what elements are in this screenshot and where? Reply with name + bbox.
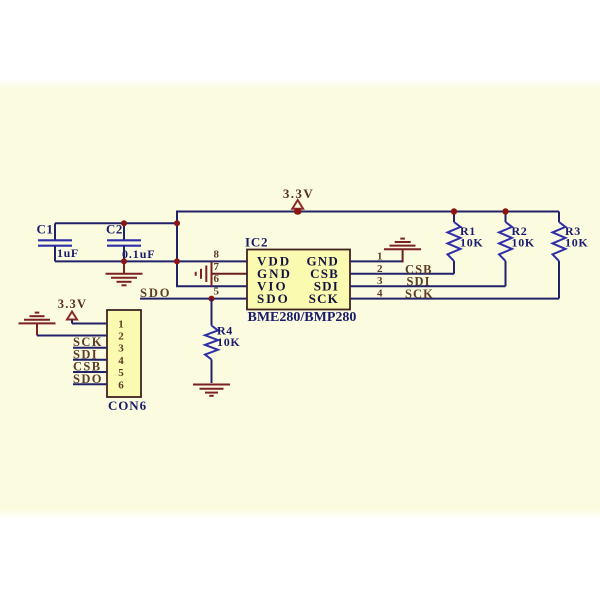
wire pin 4 SCK to R3 [350, 261, 559, 299]
svg-text:SCK: SCK [309, 291, 339, 306]
svg-text:C1: C1 [37, 222, 54, 237]
resistor R4 [205, 299, 218, 383]
capacitor C1 [38, 223, 72, 261]
svg-text:5: 5 [214, 286, 220, 298]
junction dot C2 bottom [121, 258, 127, 264]
svg-text:0.1uF: 0.1uF [122, 247, 156, 261]
wire CON6 pin 4 [73, 359, 107, 361]
ground below R4 [193, 385, 230, 396]
junction dot rail x177 VDD [174, 258, 180, 264]
svg-text:4: 4 [377, 288, 383, 300]
power port 3.3V left [58, 297, 87, 324]
junction dot power [294, 208, 302, 214]
power port 3.3V top [283, 186, 314, 209]
wire CON6 pin 1 [72, 323, 107, 325]
wire VDD row / capacitor bottom rail to pin 8 [55, 260, 247, 262]
svg-text:SDO: SDO [73, 372, 103, 386]
svg-text:BME280/BMP280: BME280/BMP280 [248, 310, 357, 325]
svg-text:6: 6 [214, 273, 220, 285]
svg-text:1uF: 1uF [57, 246, 79, 260]
junction dot C2 top [121, 220, 127, 226]
svg-text:3: 3 [118, 343, 124, 355]
svg-text:SCK: SCK [405, 287, 434, 301]
svg-text:8: 8 [214, 248, 220, 260]
svg-text:CON6: CON6 [108, 398, 147, 413]
wire 3.3V main rail [177, 211, 559, 213]
svg-text:IC2: IC2 [245, 235, 268, 250]
ground below C2 [106, 261, 143, 285]
resistor R1 [448, 212, 461, 262]
svg-text:10K: 10K [460, 236, 483, 250]
svg-text:3: 3 [377, 275, 383, 287]
wire pin 2 CSB to R1 [350, 261, 454, 274]
wire CON6 pin 5 [73, 371, 107, 373]
junction dot R1 [451, 208, 457, 214]
wire CON6 pin 6 [73, 383, 107, 385]
junction dot rail x177 top [174, 220, 180, 226]
svg-text:4: 4 [118, 355, 124, 367]
junction dot SDO/R4 [209, 296, 215, 302]
svg-text:7: 7 [214, 261, 220, 273]
svg-text:10K: 10K [217, 335, 240, 349]
resistor R3 [553, 212, 566, 262]
connector CON6 body [107, 310, 141, 397]
svg-text:SDO: SDO [140, 286, 171, 300]
svg-text:C2: C2 [106, 222, 123, 237]
svg-text:2: 2 [118, 331, 124, 343]
wire pin 1 to ground [350, 249, 403, 262]
IC2 body [247, 250, 350, 310]
wire GND pin 7 [212, 273, 248, 275]
svg-text:1: 1 [377, 250, 383, 262]
svg-text:3.3V: 3.3V [58, 297, 87, 311]
svg-text:10K: 10K [565, 236, 588, 250]
wire VIO pin 6 [176, 285, 247, 287]
capacitor C2 [107, 223, 141, 261]
wire CON6 pin 3 [73, 347, 107, 349]
ground left of CON6 [19, 313, 56, 336]
svg-text:10K: 10K [512, 236, 535, 250]
wire vertical from rail at x=177 [176, 211, 178, 287]
wire pin 3 SDI to R2 [350, 261, 506, 286]
svg-text:2: 2 [377, 263, 383, 275]
svg-text:5: 5 [118, 367, 124, 379]
ground above pin 1 [384, 239, 421, 250]
wire SDO row to pin 5 [140, 298, 247, 300]
junction dot R2 [502, 208, 508, 214]
wire capacitor top rail [55, 222, 177, 224]
ground sideways at pin 7 [196, 262, 212, 287]
resistor R2 [499, 212, 512, 262]
svg-text:1: 1 [118, 319, 124, 331]
svg-text:6: 6 [118, 379, 124, 391]
wire CON6 pin 2 [37, 335, 107, 337]
svg-text:3.3V: 3.3V [283, 186, 314, 201]
svg-text:SDO: SDO [257, 291, 290, 306]
